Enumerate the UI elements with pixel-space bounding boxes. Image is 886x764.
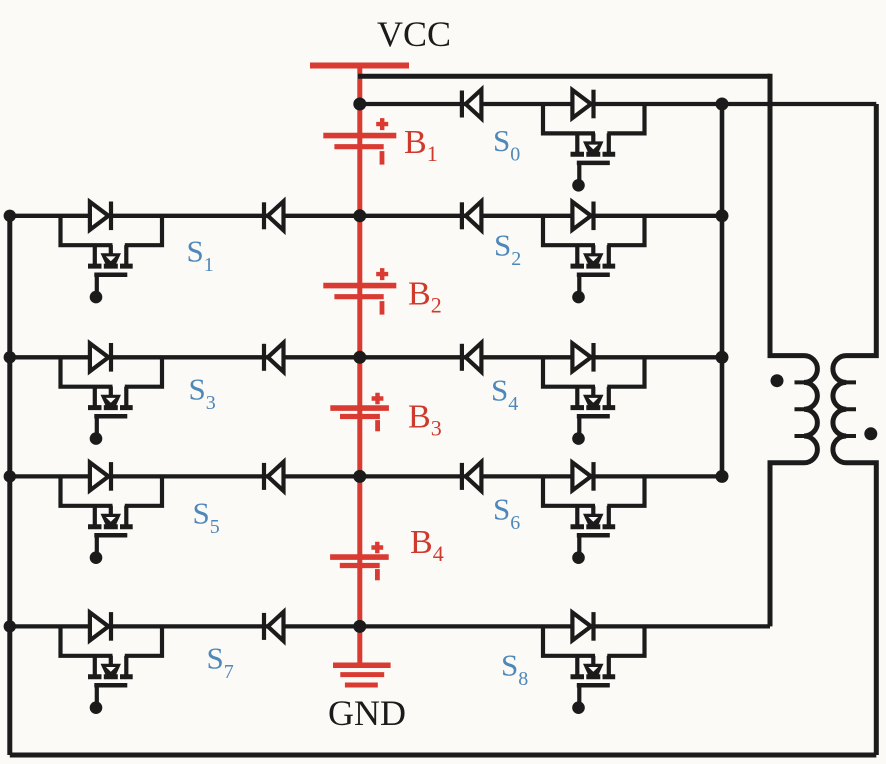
junction left bus row E xyxy=(4,620,16,632)
wire: row E xyxy=(10,624,770,628)
wire: row D xyxy=(10,474,722,478)
junction node VCC / B1+ on row A xyxy=(353,98,366,111)
junction right bus row A xyxy=(716,98,729,111)
junction left bus row C xyxy=(4,351,16,363)
series diode row C left xyxy=(264,343,284,372)
transformer primary winding T1a with leads xyxy=(770,74,817,627)
series diode row B left xyxy=(264,201,284,230)
battery B1 xyxy=(323,118,396,165)
battery stack center line (red) xyxy=(357,66,362,667)
junction right bus row B xyxy=(716,209,729,222)
switch S2 xyxy=(543,202,645,304)
switch S8 xyxy=(543,612,645,714)
switch S3 xyxy=(61,343,163,445)
junction right bus row D xyxy=(716,470,729,483)
series diode row E left xyxy=(264,612,284,641)
series diode row B right xyxy=(462,201,482,230)
svg-text:VCC: VCC xyxy=(377,14,451,54)
battery B2 xyxy=(323,268,396,315)
transformer secondary winding T1b with leads xyxy=(833,104,876,755)
wire: bottom return xyxy=(10,753,877,758)
junction node B2-/B3+ on row C xyxy=(353,351,366,364)
switch S4 xyxy=(543,343,645,445)
series diode row A right xyxy=(462,90,482,119)
wire: row A xyxy=(360,102,877,106)
junction right bus row C xyxy=(716,351,729,364)
transformer phase dot primary xyxy=(771,374,784,387)
series diode row C right xyxy=(462,343,482,372)
wire: right bus xyxy=(720,104,725,476)
VCC rail (red bar) xyxy=(310,63,409,69)
series diode row D right xyxy=(462,462,482,491)
junction node B4-/GND on row E xyxy=(353,620,366,633)
junction left bus row B xyxy=(4,210,16,222)
switch S6 xyxy=(543,462,645,564)
battery B3 xyxy=(330,393,389,432)
wire: row C xyxy=(10,355,722,359)
switch S1 xyxy=(61,202,163,304)
junction node B3-/B4+ on row D xyxy=(353,470,366,483)
junction node B1-/B2+ on row B xyxy=(353,209,366,222)
wire: top rail to transformer primary top xyxy=(358,74,770,79)
wire: row B xyxy=(10,214,722,218)
battery B4 xyxy=(330,542,389,581)
svg-text:GND: GND xyxy=(328,693,406,733)
switch S5 xyxy=(61,462,163,564)
junction left bus row D xyxy=(4,470,16,482)
switch S7 xyxy=(61,612,163,714)
wire: left bus xyxy=(7,216,12,755)
switch S0 xyxy=(543,90,645,192)
transformer phase dot secondary xyxy=(864,427,877,440)
ground symbol xyxy=(333,665,391,685)
series diode row D left xyxy=(264,462,284,491)
